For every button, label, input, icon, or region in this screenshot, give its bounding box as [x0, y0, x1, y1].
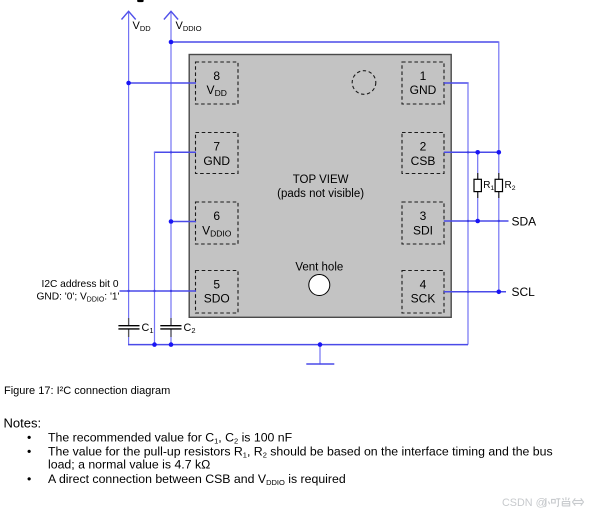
- capacitor C2: [160, 318, 195, 337]
- wire ground bottom rail: [128, 329, 130, 344]
- svg-text:CSDN @: CSDN @: [502, 497, 547, 509]
- wire pin6 VDDIO: [171, 221, 196, 223]
- pad 2 CSB: [402, 133, 444, 174]
- wire pin5 SDO address line: [120, 290, 197, 292]
- pad 6 VDDIO: [196, 202, 239, 244]
- wire R1 branch: [477, 152, 479, 221]
- pad 7 GND: [196, 133, 239, 174]
- chip body U1 (TOP VIEW): [189, 55, 451, 318]
- svg-text:•: •: [27, 445, 31, 459]
- junction CSB R1: [475, 150, 480, 155]
- svg-text:•: •: [27, 472, 31, 486]
- svg-text:GND: '0'; VDDIO: '1': GND: '0'; VDDIO: '1': [36, 292, 119, 304]
- svg-text:SDI: SDI: [413, 223, 433, 237]
- svg-text:VDDIO: VDDIO: [176, 20, 202, 33]
- partial glyph at top edge: [137, 0, 143, 2]
- svg-text:CSB: CSB: [411, 154, 436, 168]
- svg-text:R1: R1: [483, 180, 494, 192]
- svg-text:C1: C1: [142, 322, 154, 335]
- svg-text:VDD: VDD: [133, 20, 152, 33]
- svg-text:C2: C2: [184, 322, 196, 335]
- svg-text:Vent hole: Vent hole: [295, 262, 343, 274]
- junction ground rail pin7 leg: [152, 342, 157, 347]
- pad 4 SCK: [402, 271, 444, 314]
- resistor R2: [495, 173, 516, 198]
- junction SDA R1: [475, 219, 480, 224]
- wire C2 bottom leg: [170, 329, 172, 345]
- svg-text:1: 1: [420, 69, 427, 83]
- wire VDDIO rail: [170, 13, 172, 326]
- svg-text:GND: GND: [203, 154, 230, 168]
- wire R2 lower leg to SCL: [498, 192, 500, 292]
- wire pin7 GND down to ground rail: [154, 151, 196, 153]
- pad 1 GND: [402, 62, 444, 104]
- svg-text:8: 8: [213, 69, 220, 83]
- svg-text:Notes:: Notes:: [4, 416, 42, 431]
- wire VDD rail: [128, 13, 130, 326]
- svg-text:2: 2: [420, 140, 427, 154]
- junction VDDIO pin6: [169, 219, 174, 224]
- svg-text:•: •: [27, 431, 31, 445]
- junction CSB VDDIO: [497, 150, 502, 155]
- svg-text:SCK: SCK: [411, 292, 436, 306]
- svg-text:Figure 17: I²C connection diag: Figure 17: I²C connection diagram: [4, 385, 170, 397]
- svg-text:GND: GND: [410, 83, 437, 97]
- svg-text:6: 6: [213, 209, 220, 223]
- svg-text:5: 5: [213, 277, 220, 291]
- wire VDDIO top rail to right: [171, 41, 499, 43]
- ground symbol: [319, 345, 321, 365]
- svg-text:7: 7: [213, 140, 220, 154]
- svg-text:3: 3: [420, 209, 427, 223]
- watermark: [502, 497, 584, 509]
- wire pin4 SCK / SCL line: [444, 291, 506, 293]
- junction ground stub: [318, 342, 323, 347]
- svg-text:I2C address bit 0: I2C address bit 0: [41, 279, 118, 290]
- junction SCL R2: [497, 290, 502, 295]
- svg-text:load; a normal value is 4.7 kΩ: load; a normal value is 4.7 kΩ: [48, 458, 210, 472]
- capacitor C1: [118, 318, 153, 337]
- arrow VDD: [122, 11, 136, 19]
- svg-text:SDA: SDA: [512, 215, 537, 229]
- svg-text:R2: R2: [505, 180, 516, 192]
- wire pin1 GND to right ground leg: [444, 82, 469, 84]
- svg-text:A direct connection between CS: A direct connection between CSB and VDDI…: [48, 472, 346, 487]
- wire pin8 VDD: [129, 82, 196, 84]
- orientation mark (dashed circle): [352, 71, 376, 95]
- junction VDD pin8: [126, 81, 131, 86]
- wire crossing bumps: [127, 151, 500, 293]
- svg-text:(pads not visible): (pads not visible): [277, 188, 364, 200]
- wire pin3 SDI / SDA line: [444, 220, 509, 222]
- arrow VDDIO: [164, 11, 178, 19]
- svg-text:TOP VIEW: TOP VIEW: [293, 174, 349, 186]
- pad 8 VDD: [196, 62, 239, 104]
- pad 3 SDI: [402, 202, 444, 244]
- svg-text:SDO: SDO: [204, 292, 230, 306]
- resistor R1: [474, 173, 494, 198]
- junction ground rail C2 leg: [169, 342, 174, 347]
- junction VDDIO top: [169, 40, 174, 45]
- pad 5 SDO: [196, 271, 239, 314]
- wire pin2 CSB to VDDIO: [444, 151, 499, 153]
- svg-text:4: 4: [420, 277, 427, 291]
- svg-text:The recommended value for C1,: The recommended value for C1, C2 is 100 …: [48, 431, 293, 446]
- svg-text:SCL: SCL: [512, 285, 536, 299]
